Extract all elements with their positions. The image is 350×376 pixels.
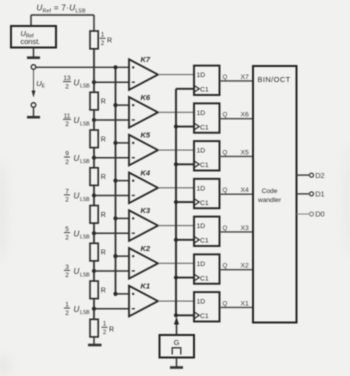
op-amp comparator K6 bbox=[129, 93, 158, 128]
svg-text:1D: 1D bbox=[197, 110, 206, 117]
wire Q output X2 to code converter bbox=[220, 263, 254, 270]
svg-text:U: U bbox=[74, 78, 80, 87]
wire U_E branch to K2 bbox=[113, 254, 129, 258]
flip-flop FF3 (1D C1) bbox=[194, 217, 220, 246]
svg-text:1D: 1D bbox=[197, 223, 206, 230]
op-amp comparator K4 bbox=[129, 168, 158, 203]
svg-text:2: 2 bbox=[65, 197, 69, 204]
node label 1/2 U_LSB bbox=[64, 302, 90, 317]
node tap 7/2 U_LSB bbox=[92, 193, 129, 197]
svg-text:X2: X2 bbox=[241, 263, 250, 270]
wire Q output X3 to code converter bbox=[220, 225, 254, 232]
svg-text:R: R bbox=[101, 99, 106, 106]
resistor R (6 of 6, between taps) bbox=[90, 281, 106, 299]
ground (below U_Ref source) bbox=[27, 48, 40, 58]
wire U_E branch to K3 bbox=[113, 216, 129, 220]
node label 5/2 U_LSB bbox=[64, 226, 90, 241]
node label 9/2 U_LSB bbox=[64, 151, 90, 166]
wire K5 output to flip-flop 1D bbox=[158, 149, 194, 151]
svg-text:1: 1 bbox=[101, 33, 105, 39]
svg-text:K4: K4 bbox=[141, 168, 151, 177]
op-amp comparator K5 bbox=[129, 131, 158, 166]
wire K6 output to flip-flop 1D bbox=[158, 111, 194, 113]
node tap 13/2 U_LSB bbox=[92, 80, 129, 84]
svg-text:R: R bbox=[101, 174, 106, 181]
svg-text:2: 2 bbox=[65, 272, 69, 279]
wire (none) scan artifacts bbox=[0, 145, 350, 375]
svg-text:U: U bbox=[74, 305, 80, 314]
wire U_E branch to K1 bbox=[113, 292, 129, 296]
svg-text:Code: Code bbox=[262, 188, 278, 195]
node tap 3/2 U_LSB bbox=[92, 269, 129, 273]
node tap 1/2 U_LSB bbox=[92, 307, 129, 311]
node U_E (input voltage arrow) bbox=[32, 70, 46, 98]
svg-text:1D: 1D bbox=[197, 148, 206, 155]
svg-text:C1: C1 bbox=[200, 313, 209, 320]
wire clock branch to FF7 C1 bbox=[176, 88, 194, 90]
svg-text:2: 2 bbox=[103, 330, 107, 336]
voltage reference U_Ref const. bbox=[11, 26, 56, 48]
wire Q output X7 to code converter bbox=[220, 74, 254, 81]
svg-text:D2: D2 bbox=[315, 171, 324, 180]
svg-text:C1: C1 bbox=[200, 124, 209, 131]
resistor R (5 of 6, between taps) bbox=[90, 243, 106, 261]
svg-text:G: G bbox=[174, 338, 180, 347]
svg-text:C1: C1 bbox=[200, 275, 209, 282]
wire clock branch to FF6 C1 bbox=[174, 124, 194, 128]
resistor 1/2 R (top of ladder) bbox=[90, 31, 112, 49]
wire clock branch to FF5 C1 bbox=[174, 162, 194, 166]
wire Q output X6 to code converter bbox=[220, 112, 254, 119]
resistor R (3 of 6, between taps) bbox=[90, 168, 106, 186]
svg-text:K3: K3 bbox=[141, 206, 151, 215]
svg-text:Q: Q bbox=[223, 187, 228, 194]
node label 13/2 U_LSB bbox=[63, 75, 90, 90]
svg-text:7: 7 bbox=[65, 188, 69, 195]
resistor 1/2 R (bottom of ladder) bbox=[90, 319, 114, 337]
ground (clock generator) bbox=[170, 358, 183, 368]
svg-text:LSB: LSB bbox=[80, 272, 90, 278]
svg-text:X6: X6 bbox=[241, 112, 250, 119]
junction U_E line / bus bbox=[113, 65, 117, 69]
svg-text:wandler: wandler bbox=[257, 197, 282, 204]
svg-text:X7: X7 bbox=[241, 74, 250, 81]
svg-text:R: R bbox=[101, 136, 106, 143]
svg-text:3: 3 bbox=[65, 264, 69, 271]
svg-text:LSB: LSB bbox=[80, 310, 90, 316]
wire clock branch to FF1 C1 bbox=[174, 313, 194, 317]
node tap 11/2 U_LSB bbox=[92, 118, 129, 122]
svg-text:Q: Q bbox=[223, 112, 228, 119]
wire resistor ladder (vertical) bbox=[93, 49, 95, 320]
svg-text:X3: X3 bbox=[241, 225, 250, 232]
svg-text:LSB: LSB bbox=[80, 197, 90, 203]
svg-text:Q: Q bbox=[223, 225, 228, 232]
resistor R (2 of 6, between taps) bbox=[90, 130, 106, 148]
wire Q output X1 to code converter bbox=[220, 300, 254, 307]
op-amp comparator K1 bbox=[129, 282, 158, 317]
ground (input lower terminal) bbox=[27, 107, 40, 117]
ground (bottom of ladder) bbox=[88, 337, 102, 345]
svg-text:1D: 1D bbox=[197, 299, 206, 306]
svg-text:C1: C1 bbox=[200, 162, 209, 169]
node input terminal (top, U_E +) bbox=[31, 65, 36, 70]
svg-text:UE: UE bbox=[36, 79, 45, 90]
clock generator G (pulse) bbox=[160, 335, 195, 358]
svg-text:LSB: LSB bbox=[80, 235, 90, 241]
svg-text:K1: K1 bbox=[141, 282, 151, 291]
svg-text:U: U bbox=[74, 192, 80, 201]
op-amp comparator K7 bbox=[129, 55, 158, 90]
node output D0 bbox=[297, 210, 325, 219]
wire generator output (arrow up to clock bus) bbox=[174, 317, 179, 335]
wire K4 output to flip-flop 1D bbox=[158, 187, 194, 189]
svg-text:LSB: LSB bbox=[80, 84, 90, 90]
flip-flop FF1 (1D C1) bbox=[194, 292, 220, 321]
wire top reference rail bbox=[31, 15, 94, 31]
node tap 5/2 U_LSB bbox=[92, 231, 129, 235]
svg-text:D1: D1 bbox=[315, 190, 324, 199]
svg-text:Q: Q bbox=[223, 300, 228, 307]
wire K1 output to flip-flop 1D bbox=[158, 300, 194, 302]
node tap 9/2 U_LSB bbox=[92, 156, 129, 160]
svg-text:D0: D0 bbox=[315, 210, 324, 219]
svg-text:LSB: LSB bbox=[80, 121, 90, 127]
op-amp comparator K2 bbox=[129, 244, 158, 279]
svg-text:Q: Q bbox=[223, 263, 228, 270]
svg-text:const.: const. bbox=[21, 37, 41, 46]
svg-text:13: 13 bbox=[63, 75, 71, 82]
svg-text:U: U bbox=[74, 229, 80, 238]
svg-text:R: R bbox=[109, 327, 114, 334]
node label 11/2 U_LSB bbox=[63, 113, 90, 128]
svg-text:K5: K5 bbox=[141, 131, 151, 140]
node U_Ref = 7 U_LSB (top reference rail label) bbox=[37, 4, 87, 15]
flip-flop FF5 (1D C1) bbox=[194, 141, 220, 170]
wire U_E distribution bus (vertical) bbox=[115, 67, 117, 294]
flip-flop FF4 (1D C1) bbox=[194, 179, 220, 208]
svg-text:2: 2 bbox=[65, 83, 69, 90]
node input terminal (bottom) bbox=[31, 103, 36, 108]
svg-text:1D: 1D bbox=[197, 185, 206, 192]
wire clock branch to FF3 C1 bbox=[174, 238, 194, 242]
op-amp comparator K3 bbox=[129, 206, 158, 241]
svg-text:Q: Q bbox=[223, 74, 228, 81]
svg-text:C1: C1 bbox=[200, 200, 209, 207]
svg-text:9: 9 bbox=[65, 151, 69, 158]
wire U_E branch to K5 bbox=[113, 141, 129, 145]
svg-text:5: 5 bbox=[65, 226, 69, 233]
svg-text:Q: Q bbox=[223, 149, 228, 156]
wire clock branch to FF4 C1 bbox=[174, 200, 194, 204]
svg-text:K7: K7 bbox=[141, 55, 151, 64]
svg-text:1D: 1D bbox=[197, 261, 206, 268]
node label 3/2 U_LSB bbox=[64, 264, 90, 279]
node output D1 bbox=[297, 190, 325, 199]
svg-text:R: R bbox=[101, 212, 106, 219]
svg-text:URef = 7·ULSB: URef = 7·ULSB bbox=[37, 4, 87, 15]
wire Q output X5 to code converter bbox=[220, 149, 254, 156]
svg-text:X1: X1 bbox=[241, 300, 250, 307]
svg-text:X5: X5 bbox=[241, 149, 250, 156]
code converter U10 BIN/OCT bbox=[253, 66, 297, 323]
svg-text:C1: C1 bbox=[200, 87, 209, 94]
wire K3 output to flip-flop 1D bbox=[158, 225, 194, 227]
svg-text:2: 2 bbox=[101, 41, 105, 47]
svg-text:2: 2 bbox=[65, 234, 69, 241]
svg-text:U: U bbox=[74, 116, 80, 125]
node label 7/2 U_LSB bbox=[64, 188, 90, 203]
wire Q output X4 to code converter bbox=[220, 187, 254, 194]
svg-text:2: 2 bbox=[65, 310, 69, 317]
svg-text:C1: C1 bbox=[200, 238, 209, 245]
svg-text:K6: K6 bbox=[141, 93, 151, 102]
resistor R (1 of 6, between taps) bbox=[90, 92, 106, 110]
wire U_E branch to K6 bbox=[113, 103, 129, 107]
svg-text:2: 2 bbox=[65, 159, 69, 166]
svg-text:R: R bbox=[101, 250, 106, 257]
svg-text:X4: X4 bbox=[241, 187, 250, 194]
node output D2 bbox=[297, 171, 325, 180]
wire clock bus (vertical) bbox=[175, 89, 177, 315]
svg-text:U: U bbox=[74, 154, 80, 163]
svg-text:1: 1 bbox=[65, 302, 69, 309]
svg-text:11: 11 bbox=[64, 113, 71, 120]
svg-text:1D: 1D bbox=[197, 72, 206, 79]
svg-text:BIN/OCT: BIN/OCT bbox=[258, 75, 291, 84]
resistor R (4 of 6, between taps) bbox=[90, 206, 106, 224]
svg-text:R: R bbox=[101, 287, 106, 294]
wire U_E input line to comparator bus bbox=[36, 66, 129, 68]
svg-text:K2: K2 bbox=[141, 244, 151, 253]
svg-text:LSB: LSB bbox=[80, 159, 90, 165]
svg-text:2: 2 bbox=[65, 121, 69, 128]
svg-text:U: U bbox=[74, 267, 80, 276]
svg-text:1: 1 bbox=[103, 322, 107, 328]
flip-flop FF7 (1D C1) bbox=[194, 66, 220, 95]
flip-flop FF6 (1D C1) bbox=[194, 103, 220, 132]
flip-flop FF2 (1D C1) bbox=[194, 254, 220, 283]
wire U_E branch to K4 bbox=[113, 179, 129, 183]
wire K2 output to flip-flop 1D bbox=[158, 262, 194, 264]
wire clock branch to FF2 C1 bbox=[174, 275, 194, 279]
wire K7 output to flip-flop 1D bbox=[158, 74, 194, 76]
svg-text:R: R bbox=[107, 38, 112, 45]
